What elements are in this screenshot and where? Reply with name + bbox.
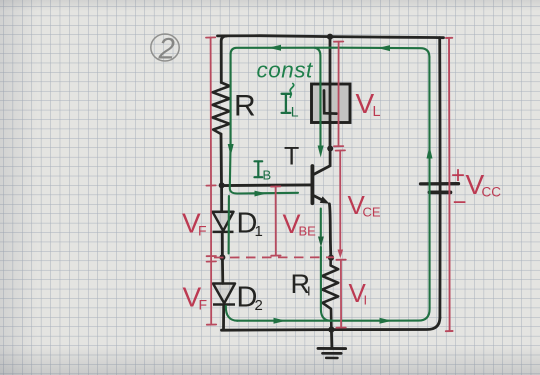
svg-text:1: 1: [255, 223, 263, 240]
wire: top horizontal (node top): [218, 36, 444, 38]
diode D1: [213, 212, 234, 232]
current arrow IB (right, base): [255, 191, 267, 197]
wire: left vertical upper (to resistor R): [221, 36, 226, 83]
wire: emitter down to node E: [329, 204, 331, 258]
svg-text:I: I: [307, 284, 311, 299]
resistor RI: [322, 258, 338, 330]
wire: top node down to load L: [329, 37, 332, 85]
wire: D2 to bottom rail: [222, 305, 225, 331]
transistor T emitter lead with arrow: [313, 195, 326, 201]
svg-text:+: +: [451, 162, 465, 189]
wire: through load L to collector node: [329, 85, 332, 149]
svg-text:T: T: [284, 143, 299, 171]
node top junction dot: [327, 34, 333, 40]
load L box border: [312, 84, 351, 123]
svg-text:CE: CE: [363, 205, 381, 220]
wire: node B down to diode D1: [220, 185, 223, 211]
svg-text:F: F: [198, 223, 207, 239]
load L label: [324, 91, 337, 114]
svg-text:2: 2: [158, 33, 175, 66]
svg-text:−: −: [453, 189, 467, 216]
current arrow right rail (up): [427, 146, 433, 159]
current arrow bottom rail (right) x2: [274, 318, 287, 324]
wire: base horizontal: [222, 183, 312, 187]
page number marker "2" circled, pencil: [151, 34, 179, 61]
measure line VCC (red, right): [446, 38, 453, 331]
wire: right vertical (Vcc branch): [438, 38, 441, 318]
current arrow left branch (down): [228, 144, 234, 156]
svg-text:L: L: [373, 104, 381, 120]
measure line VL (red): [334, 42, 343, 147]
load box L fill: [312, 84, 351, 123]
label IL (green current): [282, 94, 291, 113]
svg-text:BE: BE: [299, 224, 317, 239]
collector node junction dot: [327, 146, 333, 152]
diode D2: [213, 284, 235, 305]
red dashed node line (base/emitter reference): [214, 256, 334, 258]
wire: green current loop (top / left / bottom / right): [226, 48, 430, 321]
measure line VR+VF+VF (left, red): [206, 37, 216, 324]
node E junction dot: [328, 255, 334, 261]
transistor T base bar: [310, 166, 314, 203]
measure line VBE (red): [271, 186, 281, 255]
svg-text:2: 2: [255, 297, 263, 314]
measure line VI (red): [336, 260, 345, 328]
squiggle between const and IL: [290, 84, 294, 98]
node B junction dot: [219, 182, 225, 188]
svg-text:const: const: [257, 58, 315, 83]
node G junction dot (RI to ground rail): [328, 327, 334, 333]
current arrow emitter (down): [318, 237, 324, 248]
transistor T collector lead: [313, 149, 330, 175]
svg-text:L: L: [291, 104, 299, 120]
svg-text:R: R: [234, 90, 256, 123]
mid node junction dot (between D1 and D2): [219, 254, 225, 260]
battery Vcc plate + (long): [421, 182, 459, 185]
svg-text:F: F: [199, 297, 208, 313]
wire: D1 to mid node: [221, 232, 224, 258]
wire: green branch along emitter / RI: [321, 209, 331, 321]
svg-text:CC: CC: [482, 185, 502, 200]
resistor R: [213, 83, 230, 135]
battery Vcc plate - (short): [430, 191, 451, 195]
svg-text:B: B: [263, 168, 272, 183]
label IB (green current): [255, 161, 263, 177]
measure line VCE (red, arrow at bottom): [336, 150, 345, 250]
wire: bottom horizontal rail: [222, 318, 440, 331]
ground symbol: [318, 330, 346, 358]
wire: mid node to diode D2: [221, 257, 224, 283]
wire: green branch through load L: [315, 48, 321, 146]
wire: R bottom to node B: [220, 134, 223, 185]
current arrow IL (down, beside load): [318, 146, 324, 158]
svg-text:I: I: [364, 293, 368, 308]
current arrow top rail (left) x2: [269, 45, 282, 51]
